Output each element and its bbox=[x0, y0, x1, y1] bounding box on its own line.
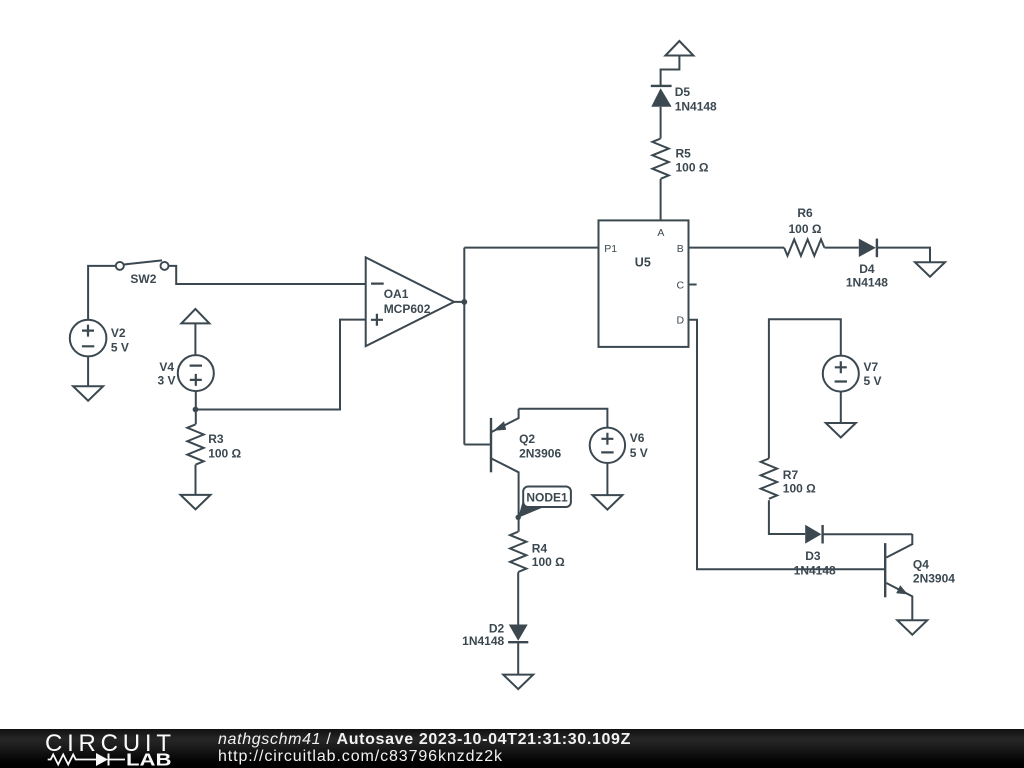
svg-text:100 Ω: 100 Ω bbox=[532, 555, 565, 569]
svg-text:100 Ω: 100 Ω bbox=[783, 482, 816, 496]
svg-text:1N4148: 1N4148 bbox=[794, 563, 836, 577]
svg-text:V6: V6 bbox=[630, 431, 645, 445]
svg-text:B: B bbox=[677, 243, 684, 255]
svg-text:R5: R5 bbox=[676, 146, 692, 160]
svg-text:P1: P1 bbox=[604, 243, 617, 255]
svg-text:MCP602: MCP602 bbox=[384, 302, 431, 316]
svg-text:R3: R3 bbox=[208, 432, 224, 446]
svg-text:D4: D4 bbox=[859, 262, 875, 276]
svg-text:C: C bbox=[677, 279, 685, 291]
svg-text:5 V: 5 V bbox=[111, 340, 129, 354]
svg-text:R4: R4 bbox=[532, 541, 548, 555]
svg-text:2N3906: 2N3906 bbox=[519, 447, 561, 461]
svg-text:100 Ω: 100 Ω bbox=[789, 222, 822, 236]
svg-text:2N3904: 2N3904 bbox=[913, 571, 955, 585]
svg-text:A: A bbox=[657, 227, 664, 239]
svg-text:U5: U5 bbox=[635, 256, 651, 270]
svg-text:1N4148: 1N4148 bbox=[675, 100, 717, 114]
svg-text:100 Ω: 100 Ω bbox=[676, 161, 709, 175]
svg-text:Q4: Q4 bbox=[913, 558, 929, 572]
svg-text:5 V: 5 V bbox=[630, 446, 648, 460]
svg-text:D5: D5 bbox=[675, 85, 691, 99]
svg-text:V7: V7 bbox=[864, 360, 879, 374]
svg-text:3 V: 3 V bbox=[158, 373, 176, 387]
svg-text:V2: V2 bbox=[111, 326, 126, 340]
svg-text:1N4148: 1N4148 bbox=[846, 276, 888, 290]
svg-text:SW2: SW2 bbox=[130, 272, 156, 286]
svg-text:5 V: 5 V bbox=[864, 374, 882, 388]
svg-text:LAB: LAB bbox=[126, 750, 172, 768]
svg-text:R7: R7 bbox=[783, 468, 799, 482]
svg-text:D: D bbox=[677, 315, 685, 327]
svg-text:OA1: OA1 bbox=[384, 287, 409, 301]
svg-text:D3: D3 bbox=[805, 549, 821, 563]
svg-text:100 Ω: 100 Ω bbox=[208, 447, 241, 461]
svg-text:1N4148: 1N4148 bbox=[462, 634, 504, 648]
svg-text:Q2: Q2 bbox=[519, 432, 535, 446]
svg-text:NODE1: NODE1 bbox=[526, 491, 568, 505]
svg-text:R6: R6 bbox=[797, 206, 813, 220]
svg-text:V4: V4 bbox=[159, 360, 174, 374]
